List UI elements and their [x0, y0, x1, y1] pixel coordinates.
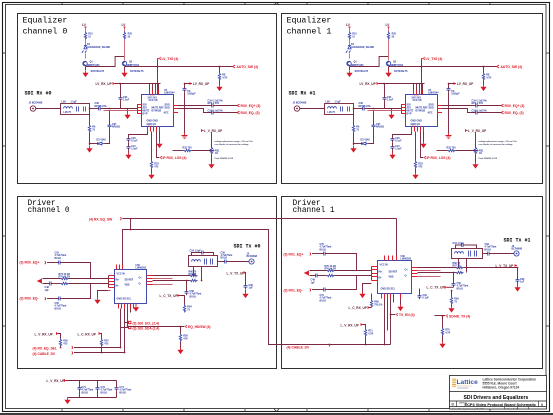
wire tie to R57	[100, 334, 103, 339]
svg-text:(3) RX0_EQ-: (3) RX0_EQ-	[20, 297, 39, 301]
wire C20 to C21	[128, 142, 130, 144]
svg-text:ECP3 Video Protocol Board Sche: ECP3 Video Protocol Board Schematic	[465, 402, 537, 407]
net arrow RX0_EQ+	[237, 104, 240, 107]
wire C50 to row2	[62, 284, 90, 299]
zone tick marks bottom	[62, 409, 490, 412]
svg-text:BULK: BULK	[55, 257, 62, 260]
resistor R61 75	[190, 279, 198, 281]
resistor R57 475	[100, 339, 102, 347]
svg-text:BYPASS: BYPASS	[152, 110, 162, 113]
wire LOS net	[157, 132, 160, 158]
diode D1 LEDANODE_SHARE	[82, 46, 87, 53]
wire trimpot to ground	[211, 155, 213, 163]
capacitor C20 0.1uF	[127, 137, 131, 143]
wire to C50	[47, 298, 57, 300]
resistor R66 75	[456, 266, 464, 268]
wire branch to R58	[180, 327, 182, 334]
ground under R58	[177, 348, 183, 355]
svg-text:SDO: SDO	[165, 107, 170, 110]
svg-text:LV_RX_UP: LV_RX_UP	[96, 82, 113, 86]
wire R10 to D1	[85, 40, 87, 46]
svg-text:6: 6	[541, 403, 543, 407]
svg-text:L_C_RX_UP: L_C_RX_UP	[78, 332, 97, 336]
wire R20 to Q2	[124, 40, 126, 61]
svg-text:IN-: IN-	[116, 285, 119, 288]
svg-text:O-: O-	[405, 275, 408, 278]
svg-text:R32 750: R32 750	[183, 147, 193, 150]
U5 right pin stubs	[174, 106, 179, 113]
capacitor in network	[77, 107, 79, 112]
wire U60 outputs to termination	[418, 268, 456, 273]
wire C37 to input line	[109, 111, 111, 123]
svg-text:LEDANODE_SHARE: LEDANODE_SHARE	[87, 46, 111, 49]
Lattice logo stripes	[452, 379, 456, 386]
svg-text:475: 475	[63, 343, 68, 346]
svg-text:BULK: BULK	[82, 391, 89, 394]
wire R70 to ground	[442, 336, 444, 342]
svg-text:BULK: BULK	[221, 257, 228, 260]
quadrant box equalizer ch1	[282, 14, 543, 184]
U59 left pin stubs	[109, 276, 115, 288]
resistor R67 75	[456, 271, 464, 273]
svg-text:1uF: 1uF	[520, 281, 525, 284]
resistor R58 47K	[179, 334, 181, 342]
svg-text:1K: 1K	[215, 152, 218, 155]
svg-text:(3) SDI_SCL (2,4): (3) SDI_SCL (2,4)	[133, 321, 160, 325]
wire row1 to L_V_TX_UP	[464, 267, 518, 269]
svg-text:R74 44.2R: R74 44.2R	[59, 276, 71, 279]
svg-text:RX0_EQ- (3): RX0_EQ- (3)	[241, 111, 260, 115]
junction dots equalizer	[89, 66, 221, 145]
resistor R73 44.2	[61, 277, 69, 279]
capacitor C48 1pF	[48, 282, 54, 286]
ground at U5 input	[124, 113, 130, 120]
svg-text:(4) CABLE_DV: (4) CABLE_DV	[287, 345, 311, 349]
wire Q2 emitter to ground	[124, 67, 126, 71]
transistor Q2 MMBT4403	[122, 61, 126, 65]
wire to C52	[47, 262, 57, 264]
wire diode branch	[90, 143, 98, 145]
ground left under U60	[359, 292, 365, 299]
svg-text:VCC IN: VCC IN	[117, 273, 125, 276]
svg-text:GND SD SCL: GND SD SCL	[381, 288, 396, 291]
svg-text:L_V_TX_UP: L_V_TX_UP	[496, 264, 515, 268]
bypass cap C54 over box	[192, 253, 214, 256]
wire tie to trimpot	[211, 132, 213, 148]
wire to R69	[451, 291, 453, 297]
svg-text:SDI Tx #0: SDI Tx #0	[234, 244, 261, 250]
wire TX_EN cross run	[123, 230, 391, 345]
equalizer channel 1 circuit (U6 LMH0344, same topology as channel 0)	[293, 23, 525, 179]
capacitor C37	[108, 123, 112, 129]
wire U5 out- jog	[178, 109, 210, 113]
resistor R33 475	[150, 161, 152, 169]
wire C18 to net	[215, 112, 237, 114]
resistor R75 44.2	[327, 269, 335, 271]
wire C34 to input line	[120, 101, 122, 108]
net arrow RX0_EQ-	[237, 111, 240, 114]
svg-text:(3) RX0_EQ+: (3) RX0_EQ+	[20, 261, 40, 265]
svg-text:L_V_RX_UP: L_V_RX_UP	[47, 379, 66, 383]
svg-text:(4) RX_EQ_SEL: (4) RX_EQ_SEL	[33, 346, 57, 350]
quadrant box driver ch0	[18, 197, 277, 369]
output network box	[189, 256, 218, 267]
capacitor C18 series	[210, 111, 216, 115]
input fan bus	[108, 276, 110, 288]
svg-text:L_C_TX_UP: L_C_TX_UP	[427, 286, 446, 290]
wire box to C63	[483, 253, 486, 255]
wire LV_TX0 feed vertical	[157, 59, 159, 95]
wire C70 to row1	[327, 254, 356, 271]
svg-text:SD/HD_TX (4): SD/HD_TX (4)	[449, 314, 470, 318]
wire R69 to ground	[451, 305, 453, 307]
ground bar under C8	[182, 133, 188, 139]
svg-text:BULK: BULK	[190, 295, 197, 298]
wire R8 to ground	[219, 81, 221, 85]
capacitor C49 1pF	[314, 274, 320, 278]
U60 left pin stubs	[372, 267, 378, 281]
resistor R60 75	[190, 274, 198, 276]
net label LV_TX0	[158, 57, 161, 60]
svg-text:LMH0303: LMH0303	[136, 267, 147, 270]
capacitor C52 series	[57, 261, 63, 265]
IC U5 LMH0344 body	[142, 95, 174, 127]
wire to R32	[173, 150, 184, 152]
svg-text:BCD4698: BCD4698	[512, 248, 523, 251]
wire to R68	[371, 294, 373, 300]
svg-text:1pF: 1pF	[45, 289, 50, 292]
diode D3	[98, 142, 105, 145]
svg-text:GND SD SCL: GND SD SCL	[117, 298, 132, 301]
wire right rail to C8	[185, 84, 191, 87]
wire top pins to rail	[150, 84, 159, 91]
wire branch to R70	[442, 316, 444, 328]
capacitor C21 1.0uF	[127, 145, 131, 151]
wire C72 to row2	[327, 276, 356, 290]
wire U59 outputs to termination	[153, 276, 190, 281]
quadrant box driver ch1	[282, 197, 543, 369]
network caps	[205, 259, 213, 265]
resistor R32 750	[184, 149, 192, 151]
zone tick marks left	[2, 53, 6, 326]
wire jog RX_EQ_SW to lower run	[130, 219, 132, 230]
net label TX_EN	[391, 314, 396, 316]
svg-text:channel 0: channel 0	[23, 27, 68, 37]
svg-text:Sheet 3 of 6: Sheet 3 of 6	[507, 407, 520, 410]
wire C16 to net	[215, 105, 237, 107]
svg-text:C54 1.5pF: C54 1.5pF	[190, 249, 202, 252]
wire to C59	[453, 273, 455, 282]
IC U59 LMH0303 body	[115, 270, 147, 304]
capacitor C62 0.1uF	[419, 289, 421, 294]
row divider 3	[450, 406, 547, 408]
wire U5 bottom to decoupling	[129, 132, 148, 137]
svg-text:2 4 6 8: 2 4 6 8	[149, 95, 155, 97]
unconnected diff stub arrow	[37, 279, 42, 283]
svg-text:BULK: BULK	[55, 307, 62, 310]
svg-text:SOT23GLT6: SOT23GLT6	[130, 70, 144, 73]
wire diff row stubs	[310, 271, 327, 276]
capacitor C59 bulk	[452, 282, 456, 288]
capacitor C34 1.0uF	[119, 96, 123, 102]
svg-text:SDI Rx #0: SDI Rx #0	[25, 91, 52, 97]
wire C8 to ground bar	[184, 92, 186, 132]
svg-text:channel 1: channel 1	[287, 27, 332, 37]
capacitor C56 series	[223, 260, 229, 264]
svg-text:voltage adjustment range : 0.5: voltage adjustment range : 0.5v to 0.9v	[215, 140, 254, 143]
wire LV to R20	[124, 28, 126, 32]
zone tick marks top	[62, 2, 490, 5]
svg-text:L_V_RX_UP: L_V_RX_UP	[341, 323, 360, 327]
svg-text:1.5pF: 1.5pF	[71, 101, 78, 104]
wire to C72	[312, 289, 322, 291]
svg-text:VCC VD: VCC VD	[149, 99, 158, 102]
ground under Q1	[82, 71, 88, 78]
wire tie to R71	[363, 325, 366, 329]
wire to C58	[186, 281, 188, 290]
svg-text:L_V_RX_UP: L_V_RX_UP	[35, 332, 54, 336]
svg-text:IN+: IN+	[116, 279, 120, 282]
capacitor C16 series	[210, 104, 216, 108]
size cell divider	[457, 401, 539, 407]
ground under C21	[125, 153, 131, 160]
net arrow AUTO_SW	[233, 65, 236, 68]
svg-text:NP,0BJ: NP,0BJ	[112, 126, 121, 129]
svg-text:LMH0344: LMH0344	[164, 92, 175, 95]
output network box ch1	[452, 249, 483, 259]
svg-text:Corporation: Corporation	[457, 387, 469, 390]
wire RX_EQ_SW long run to driver ch1	[123, 218, 397, 220]
ground under C60	[514, 285, 520, 292]
ground under U5 pin	[156, 142, 162, 149]
ground under U60 right	[400, 299, 402, 305]
svg-text:IP RX0_LOS (4): IP RX0_LOS (4)	[163, 156, 187, 160]
svg-text:SDI Rx #1: SDI Rx #1	[289, 91, 316, 97]
wire rows to U59	[69, 279, 109, 284]
inductor L8A	[64, 107, 73, 109]
wire C56 to J5	[228, 261, 249, 263]
svg-text:L_V_TX_UP: L_V_TX_UP	[227, 271, 246, 275]
svg-text:SDI Tx #1: SDI Tx #1	[504, 238, 531, 244]
wire AUTO_SW run	[125, 66, 233, 68]
capacitor C8 1000pF	[183, 87, 187, 93]
svg-text:Equalizer: Equalizer	[23, 16, 68, 26]
svg-text:475: 475	[104, 343, 109, 346]
wire left gnd branch	[363, 284, 372, 292]
resistor R74 44.2	[61, 282, 69, 284]
svg-text:D3 4148: D3 4148	[97, 139, 107, 142]
resistor R70 4.7K	[441, 328, 443, 336]
svg-text:Cat# 3296W-1-102: Cat# 3296W-1-102	[215, 157, 234, 160]
wire to C70	[312, 253, 322, 255]
title block frame	[450, 376, 547, 410]
wire bank drops	[80, 381, 117, 386]
svg-text:Date: Monday, January 18, 20: Date: Monday, January 18, 2010	[453, 407, 485, 410]
wire C21 to ground	[128, 150, 130, 152]
quadrant box equalizer ch0	[18, 14, 277, 184]
zone tick marks right	[546, 53, 550, 326]
net label IP RX0_LOS	[161, 156, 162, 159]
wire C63 to J6	[491, 253, 514, 255]
svg-text:Hillsboro, Oregon 97124: Hillsboro, Oregon 97124	[483, 386, 520, 390]
net label EQ_HD/SW	[186, 325, 187, 328]
U59 right pin stubs	[147, 276, 153, 285]
net marker SDI_SCL	[129, 321, 131, 323]
svg-text:4.7K: 4.7K	[368, 333, 373, 336]
bypass cap C61 over box	[456, 245, 477, 249]
wire C60 to ground	[517, 283, 519, 285]
svg-text:(3) RX1_EQ-: (3) RX1_EQ-	[284, 289, 303, 293]
svg-text:SD REF: SD REF	[389, 271, 398, 274]
wire R33 to ground	[151, 169, 153, 173]
capacitor C66 1uF	[244, 284, 248, 290]
svg-text:0.1uF: 0.1uF	[423, 297, 430, 300]
resistor R64 75	[183, 305, 185, 313]
svg-text:TX_EN (4): TX_EN (4)	[399, 313, 415, 317]
row divider 2	[450, 400, 547, 402]
capacitor C71 bulk	[78, 386, 82, 392]
U5 left pin stubs	[137, 105, 142, 114]
svg-text:4.7K: 4.7K	[445, 332, 450, 335]
wire R9 to ground	[89, 133, 91, 146]
svg-text:(4) CABLE_DV: (4) CABLE_DV	[33, 352, 57, 356]
svg-text:L8A: L8A	[62, 101, 67, 104]
ground under R69	[448, 306, 454, 313]
wire R32 to trimpot	[192, 150, 212, 152]
network caps ch1	[469, 251, 477, 257]
match network box	[61, 104, 90, 115]
strip dividers	[505, 407, 529, 410]
svg-text:O-: O-	[139, 283, 142, 286]
U5 bottom pin stubs	[148, 127, 160, 132]
U60 top pin stubs	[385, 256, 397, 261]
svg-text:L08 75: L08 75	[64, 111, 72, 114]
svg-text:L_V_RX_UP: L_V_RX_UP	[204, 129, 223, 133]
capacitor C36 series	[97, 107, 103, 111]
wire tie to C60	[517, 268, 519, 278]
svg-text:(4) RX_EQ_SW: (4) RX_EQ_SW	[89, 218, 113, 222]
svg-text:LV_RX_UP: LV_RX_UP	[193, 82, 210, 86]
resistor R68 750	[370, 300, 372, 308]
wire RX_EQ_SEL	[74, 347, 121, 349]
wire rows to U60	[335, 271, 372, 276]
wire LV to R10	[85, 28, 87, 32]
capacitor C70 series	[322, 252, 328, 256]
wire bottom pin runs	[385, 299, 394, 345]
wire D1 to Q1	[85, 54, 87, 59]
svg-text:0.1uF: 0.1uF	[131, 140, 138, 143]
svg-text:R76 44.2R: R76 44.2R	[325, 268, 337, 271]
svg-text:L_C_RX_UP: L_C_RX_UP	[349, 306, 368, 310]
ground under R9	[86, 146, 92, 153]
svg-text:EQ_HD/SW (4): EQ_HD/SW (4)	[188, 325, 211, 329]
bottom screen edge line	[0, 413, 553, 415]
junction dots driver ch1	[365, 267, 519, 346]
wire bank top rail	[67, 380, 117, 382]
svg-text:47K: 47K	[183, 338, 188, 341]
U59 bottom pin stubs	[119, 304, 134, 309]
center caret marks	[274, 3, 279, 412]
U60 right pin stubs	[412, 268, 418, 277]
svg-text:BULK: BULK	[457, 287, 464, 290]
svg-text:NP0,J 50V: NP0,J 50V	[208, 102, 220, 105]
net marker SDI_SDA	[129, 326, 131, 328]
transistor Q1 MMBT4403	[83, 61, 87, 65]
ground under R8	[216, 85, 222, 92]
svg-text:Equalizer: Equalizer	[287, 16, 332, 26]
net label SD/HD_TX	[435, 315, 446, 317]
svg-text:1uF: 1uF	[249, 287, 254, 290]
wire R71 to cable_dv run	[365, 337, 367, 345]
svg-text:AUTO_SW (4): AUTO_SW (4)	[237, 65, 258, 69]
svg-text:BCD4698: BCD4698	[247, 255, 258, 258]
svg-text:SD REF: SD REF	[125, 279, 134, 282]
wire cap drop	[120, 84, 122, 96]
wire bank bottom rail	[68, 391, 117, 397]
wire diff row stubs	[43, 279, 61, 284]
svg-text:1pF: 1pF	[311, 281, 316, 284]
resistor R56 475	[59, 339, 61, 347]
svg-text:channel 0: channel 0	[28, 207, 70, 215]
wire R58 to ground	[180, 342, 182, 348]
svg-text:L_C_TX_UP: L_C_TX_UP	[160, 294, 179, 298]
svg-text:SDI Drivers and Equalizers: SDI Drivers and Equalizers	[464, 395, 529, 401]
wire network to C36	[90, 108, 97, 110]
capacitor C72 series	[322, 288, 328, 292]
wire Q1 base link to chain 2	[86, 57, 125, 67]
svg-text:IN+: IN+	[379, 271, 383, 274]
svg-text:BULK: BULK	[119, 391, 126, 394]
svg-text:1.0uF: 1.0uF	[131, 148, 138, 151]
wire C66 to ground	[245, 290, 247, 292]
network inductor	[192, 260, 201, 262]
svg-text:(3) RX1_EQ+: (3) RX1_EQ+	[284, 253, 304, 257]
resistor R69 75	[450, 297, 452, 305]
wire bottom pin runs	[121, 309, 131, 353]
svg-text:BULK: BULK	[101, 391, 108, 394]
svg-text:C18 0.1uF,5%: C18 0.1uF,5%	[208, 109, 224, 112]
row divider 1	[450, 391, 547, 393]
wire tie to R56	[59, 334, 61, 339]
capacitor C63 series	[486, 252, 492, 256]
wire C36 to U5 input	[102, 108, 137, 110]
network inductor ch1	[455, 252, 464, 254]
wire EQ_HD/SW run	[128, 326, 185, 328]
resistor R71 4.7K	[364, 329, 366, 337]
svg-text:J2 BCD4698: J2 BCD4698	[29, 102, 43, 105]
resistor R9 75	[88, 125, 90, 133]
wire J2 to match network	[36, 108, 61, 110]
U60 bottom pin stubs	[382, 294, 401, 299]
unconnected diff stub arrow	[304, 271, 309, 275]
net tie LV_RX_UP right	[190, 82, 192, 85]
IC U60 LMH0303 body	[378, 261, 412, 294]
capacitor C74 bulk	[115, 386, 119, 392]
svg-text:NP,0BJ,5%: NP,0BJ,5%	[95, 105, 108, 108]
resistor R10 51	[84, 32, 86, 40]
wire Q1 emitter to ground	[85, 67, 87, 71]
ground under R33	[148, 173, 154, 180]
svg-text:1 3 5 7 9: 1 3 5 7 9	[147, 125, 154, 127]
svg-text:SOT23GLT6: SOT23GLT6	[91, 70, 105, 73]
input fan bus	[371, 267, 373, 281]
ground under trimpot	[208, 162, 214, 169]
svg-text:750,1%: 750,1%	[374, 304, 383, 307]
input fan to pins	[138, 105, 142, 114]
wire U5 out+	[178, 105, 210, 107]
svg-text:RX0_EQ+ (3): RX0_EQ+ (3)	[241, 104, 261, 108]
capacitor C73 bulk	[96, 386, 100, 392]
